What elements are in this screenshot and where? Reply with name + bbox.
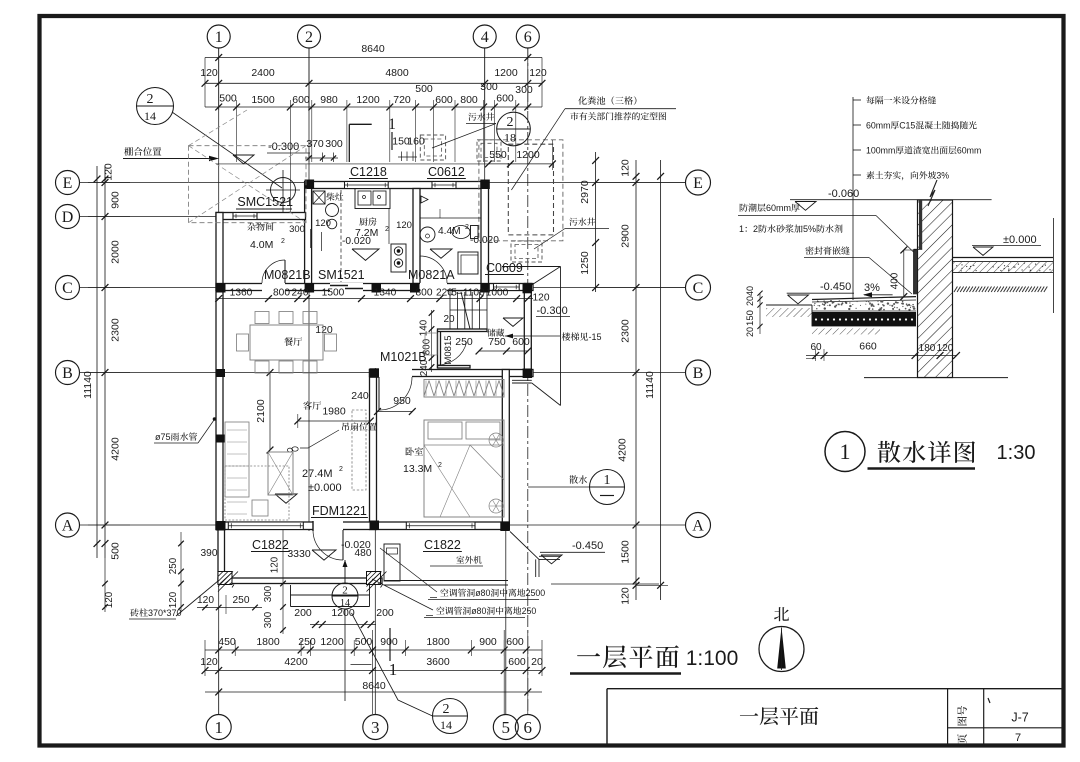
svg-text:900: 900: [479, 636, 497, 648]
detail: leader spine: [852, 97, 854, 300]
grid circles left: E D C B A: [56, 171, 80, 195]
svg-text:200: 200: [294, 607, 312, 619]
svg-text:C1822: C1822: [252, 538, 289, 552]
svg-text:1: 1: [739, 224, 744, 234]
svg-text:120: 120: [529, 67, 547, 79]
septic labels: [468, 113, 494, 121]
svg-text:1: 1: [840, 439, 851, 464]
detail note 2: [853, 124, 861, 126]
svg-text:-0.060: -0.060: [828, 188, 859, 200]
svg-text:C: C: [693, 280, 704, 297]
coffee table: [268, 452, 293, 495]
entry steps: [291, 594, 370, 596]
svg-text:-0.300: -0.300: [268, 141, 299, 153]
window C1822 right: [406, 522, 475, 530]
svg-text:20: 20: [745, 296, 755, 306]
svg-text:390: 390: [201, 548, 218, 559]
svg-text:1500: 1500: [620, 540, 632, 564]
svg-text:M1021B: M1021B: [380, 350, 427, 364]
svg-text:120: 120: [315, 218, 331, 229]
level line -0.060: [790, 199, 992, 201]
svg-text:450: 450: [218, 636, 236, 648]
svg-text:500: 500: [219, 93, 237, 105]
svg-text:400: 400: [890, 272, 901, 289]
svg-text:C1218: C1218: [350, 165, 387, 179]
svg-text:60mm: 60mm: [957, 146, 981, 156]
svg-text:3: 3: [371, 718, 380, 737]
floor slab right ±0.000: [953, 257, 1054, 259]
svg-text:720: 720: [393, 94, 411, 106]
svg-text:1: 1: [604, 473, 611, 488]
svg-text:660: 660: [859, 341, 877, 353]
svg-text:150: 150: [745, 310, 756, 326]
wall: row B (bedroom north): [370, 370, 534, 377]
svg-text:120: 120: [200, 656, 218, 668]
room 杂物间 4.0M2: [247, 222, 273, 230]
bottom chain 120/4200/3600/600/20: [205, 670, 542, 672]
svg-text:550: 550: [489, 149, 507, 161]
svg-text:2: 2: [281, 238, 285, 245]
svg-text:1200: 1200: [494, 67, 518, 79]
level -0.450 right: [572, 540, 603, 552]
svg-text:2: 2: [507, 115, 514, 130]
svg-text:2300: 2300: [620, 319, 632, 343]
left label 密封膏嵌缝: [805, 246, 849, 254]
svg-text:1980: 1980: [322, 406, 346, 418]
apron black base: [812, 312, 916, 326]
svg-text:14: 14: [340, 598, 350, 609]
TV cabinet: [352, 410, 366, 490]
storage room walls under stair: [438, 331, 441, 368]
damp proof band: [919, 200, 922, 249]
svg-text:14: 14: [440, 718, 452, 732]
svg-text:4200: 4200: [110, 437, 122, 461]
svg-text:300: 300: [263, 585, 274, 602]
svg-text:ø80: ø80: [471, 606, 486, 616]
detail title 散水详图 1:30: [825, 432, 865, 472]
散水 index circle right: [569, 475, 587, 483]
drawing title 一层平面 1:100: [577, 645, 679, 668]
svg-text:1000: 1000: [486, 288, 509, 299]
brick column label: [130, 608, 181, 618]
svg-text:E: E: [63, 175, 73, 192]
wall bottom ground line: [864, 377, 1008, 379]
wall top break: [928, 180, 937, 206]
svg-text:180: 180: [919, 343, 936, 354]
svg-text:SM1521: SM1521: [318, 268, 365, 282]
wall: grid5 vertical (bedroom east): [502, 370, 509, 530]
hatched brick columns 370x370: [218, 572, 238, 592]
top dim chain segments: [205, 106, 542, 108]
svg-text:2300: 2300: [110, 318, 122, 342]
svg-text:800: 800: [416, 288, 433, 299]
bedside fans: [489, 433, 503, 447]
top dim chain 2400/4800/1200: [205, 82, 542, 84]
svg-text:1500: 1500: [251, 94, 275, 106]
svg-text:800: 800: [460, 94, 478, 106]
stair break line: [461, 292, 470, 329]
svg-text:120: 120: [620, 159, 632, 177]
svg-text:M0821B: M0821B: [264, 268, 311, 282]
svg-text:1200: 1200: [356, 94, 380, 106]
svg-text:60: 60: [810, 342, 822, 353]
detail note 3: [853, 149, 861, 151]
svg-text:950: 950: [393, 395, 411, 407]
grid circles bottom: 1 3 5 6: [206, 715, 231, 740]
sewage well 1 dashed box: [420, 135, 445, 160]
svg-text:J-7: J-7: [1011, 711, 1028, 725]
svg-text:600: 600: [435, 94, 453, 106]
svg-text:8640: 8640: [362, 680, 386, 692]
svg-text:1250: 1250: [579, 251, 591, 275]
svg-text:13.3M: 13.3M: [403, 463, 432, 475]
bath shower head marker: [421, 196, 428, 203]
吊扇位置 ceiling fan: [342, 422, 376, 430]
bottom chain 450/1800/250/1200/500/900/1800/900/600: [205, 649, 542, 651]
washer: [458, 252, 478, 274]
svg-text:2: 2: [385, 226, 389, 233]
AC unit 室外机: [384, 544, 400, 581]
400 dim: [903, 250, 905, 297]
svg-text:C1822: C1822: [424, 538, 461, 552]
svg-text:-15: -15: [589, 332, 602, 342]
svg-text:800: 800: [273, 288, 290, 299]
hatch strip below apron: [812, 328, 880, 334]
stair arrow: [505, 335, 560, 337]
porch veranda edge east part: [384, 580, 508, 582]
north arrow: [774, 607, 789, 621]
bath divider line: [420, 217, 481, 219]
svg-text:600: 600: [496, 93, 514, 105]
small table storage room: [425, 333, 437, 355]
svg-text:1:30: 1:30: [997, 442, 1036, 464]
svg-text:250: 250: [455, 336, 473, 348]
porch walls SW: [218, 530, 225, 582]
svg-text:120: 120: [270, 556, 281, 573]
kitchen sink: [355, 189, 390, 209]
svg-text:1800: 1800: [426, 636, 450, 648]
svg-text:160: 160: [407, 136, 425, 148]
sewage well 2 dashed box: [477, 140, 501, 161]
svg-text:4.4M: 4.4M: [438, 226, 461, 237]
svg-text:ø75: ø75: [155, 432, 171, 442]
left label 1:2防水砂浆加5%防水剂: [739, 224, 843, 234]
bedroom dim 950 / 240: [378, 411, 413, 413]
AC hole labels: [440, 588, 545, 598]
index circle 2/18: [497, 112, 531, 146]
kitchen counter line: [388, 209, 390, 244]
svg-text:120: 120: [937, 343, 954, 354]
veranda south edge line: [551, 583, 659, 585]
columns: [305, 180, 315, 190]
svg-text:200: 200: [376, 607, 394, 619]
canopy labels NW: [124, 147, 161, 156]
septic tank dashed outline: [479, 140, 563, 241]
subsoil strip right: [954, 287, 1047, 293]
svg-text:27.4M: 27.4M: [302, 468, 333, 480]
svg-text:300: 300: [263, 611, 274, 628]
svg-text:40: 40: [745, 286, 755, 296]
svg-text:11140: 11140: [644, 371, 656, 399]
svg-text:600: 600: [508, 656, 526, 668]
svg-text:480: 480: [355, 548, 372, 559]
svg-text:3%: 3%: [864, 282, 880, 294]
detail bottom dims 60/660/180/120: [806, 355, 957, 357]
interior dim chain above row C: 1360/800/240/1500/1340/800/220*5=1100/1000: [216, 298, 533, 300]
svg-text:C0609: C0609: [486, 261, 523, 275]
svg-text:1200: 1200: [516, 149, 540, 161]
window C1218: [345, 182, 389, 189]
svg-text:2: 2: [305, 29, 313, 46]
svg-text:5: 5: [502, 718, 511, 737]
svg-text:B: B: [62, 365, 73, 382]
wardrobe hatch: [424, 380, 504, 398]
window C0612: [432, 182, 456, 189]
svg-text:500: 500: [110, 542, 122, 560]
svg-text:120: 120: [620, 587, 632, 605]
kitchen dashed partition: [340, 190, 342, 282]
right chain septic dims 2970/1250: [595, 152, 597, 292]
sofa L-shape: [225, 422, 249, 497]
svg-text:7: 7: [1015, 732, 1021, 744]
svg-text:120: 120: [104, 591, 115, 608]
title block: [607, 688, 1062, 690]
rain pipe label: [155, 432, 197, 442]
left overall 11140: [96, 166, 98, 558]
svg-text:M0815: M0815: [443, 335, 454, 364]
柴灶 stove: [326, 193, 343, 201]
svg-text:2400: 2400: [251, 67, 275, 79]
svg-text:1200: 1200: [320, 636, 344, 648]
detail target circle at SMC door: [271, 178, 296, 203]
bath 4.4M2: [438, 226, 461, 237]
svg-text:2000: 2000: [110, 240, 122, 264]
sewage well 3 dashed box (lower): [511, 241, 542, 262]
svg-text:±0.000: ±0.000: [1003, 234, 1037, 246]
stair treads: [449, 292, 451, 329]
svg-text:120: 120: [200, 67, 218, 79]
svg-text:18: 18: [504, 131, 516, 145]
svg-text:1: 1: [388, 116, 396, 133]
svg-text:20: 20: [443, 314, 455, 325]
svg-text:370: 370: [306, 138, 324, 150]
svg-text:B: B: [693, 365, 704, 382]
svg-text:2970: 2970: [579, 180, 591, 204]
svg-text:C15: C15: [899, 121, 915, 131]
canopy SE corner bedroom: [510, 532, 539, 560]
svg-text:2: 2: [147, 92, 154, 107]
detail note 4: [853, 174, 861, 176]
svg-text:120: 120: [103, 163, 115, 181]
svg-text:8640: 8640: [361, 43, 385, 55]
svg-text:300: 300: [289, 224, 305, 235]
svg-text:1: 1: [214, 718, 223, 737]
grid axis lines: [218, 48, 220, 714]
svg-text:4800: 4800: [385, 67, 409, 79]
right chain segments: [635, 160, 637, 600]
svg-text:2: 2: [753, 224, 758, 234]
wall: grid4 vertical: [481, 182, 489, 291]
left porch extra dims: [180, 532, 182, 612]
svg-text:60mm: 60mm: [866, 121, 890, 131]
svg-text:600: 600: [292, 94, 310, 106]
svg-text:2: 2: [339, 466, 343, 473]
svg-text:-0.020: -0.020: [470, 235, 499, 246]
svg-text:300: 300: [515, 84, 533, 96]
svg-text:1800: 1800: [256, 636, 280, 648]
svg-text:3600: 3600: [426, 656, 450, 668]
chimney outline: [349, 123, 371, 125]
left small dims: [759, 293, 761, 334]
septic dim 550/1200: [488, 163, 552, 165]
svg-text:1360: 1360: [230, 288, 253, 299]
svg-text:3%: 3%: [936, 171, 949, 181]
ground line left of apron: [766, 304, 812, 306]
svg-text:900: 900: [380, 636, 398, 648]
svg-text:ø80: ø80: [475, 588, 490, 598]
wall: row C: [216, 284, 533, 291]
svg-text:900: 900: [110, 191, 122, 209]
svg-text:4.0M: 4.0M: [250, 239, 273, 251]
room 厨房 7.2M2: [359, 217, 376, 225]
svg-text:2: 2: [443, 702, 450, 717]
svg-text:C0612: C0612: [428, 165, 465, 179]
svg-text:±0.000: ±0.000: [308, 482, 342, 494]
room 客厅 27.4M2 ±0.000: [303, 401, 321, 410]
svg-text:A: A: [692, 518, 704, 535]
bed: [424, 420, 504, 517]
svg-text:1: 1: [389, 660, 398, 679]
svg-text:750: 750: [488, 336, 506, 348]
svg-text:4200: 4200: [617, 438, 629, 462]
svg-text:100mm: 100mm: [866, 146, 895, 156]
svg-text:11140: 11140: [82, 371, 94, 399]
window C1822 left: [228, 522, 303, 530]
level -0.300 stair: [537, 305, 568, 317]
wall: west wall (grid1) D to A: [216, 213, 223, 530]
section circle 2/14 at entry: [332, 583, 358, 609]
svg-text:120: 120: [533, 293, 550, 304]
svg-text:240: 240: [351, 390, 369, 402]
svg-text:600: 600: [506, 636, 524, 648]
svg-text:FDM1221: FDM1221: [312, 504, 367, 518]
svg-text:1340: 1340: [374, 288, 397, 299]
svg-text:250: 250: [522, 606, 537, 616]
svg-text:250: 250: [298, 636, 316, 648]
level -0.450 detail: [820, 281, 851, 293]
svg-text:240: 240: [292, 288, 309, 299]
left label 防潮层60mm厚: [740, 203, 800, 213]
wall: grid6 vertical (stair bay east): [524, 284, 531, 378]
room 卧室 13.3M2: [405, 447, 423, 456]
detail note 1: [853, 99, 861, 101]
grid circles top: 1 2 4 6: [207, 25, 230, 48]
svg-text:370*370: 370*370: [148, 608, 182, 618]
kitchen level -0.020: [342, 236, 371, 247]
svg-text:1500: 1500: [322, 288, 345, 299]
svg-text:980: 980: [320, 94, 338, 106]
svg-text:300: 300: [480, 81, 498, 93]
right overall 11140: [660, 160, 662, 600]
kitchen water meter box: [313, 191, 325, 204]
bottom overall 8640: [205, 691, 542, 693]
svg-text:*5=1100: *5=1100: [447, 288, 485, 299]
section index circle 2/14 top left: [137, 88, 174, 125]
svg-text:-0.450: -0.450: [820, 281, 851, 293]
wall: grid2 vertical (kitchen west): [305, 182, 312, 291]
svg-text:3330: 3330: [287, 548, 311, 560]
living room dims 2100 / 1980: [269, 373, 271, 451]
doors (arcs): [262, 260, 285, 283]
storage label 储藏: [487, 329, 504, 337]
grid circles right: E C B A: [686, 170, 711, 195]
door FDM1221 opening: [313, 521, 343, 531]
svg-text:250: 250: [233, 595, 250, 606]
svg-text:20: 20: [745, 327, 755, 337]
svg-text:4: 4: [481, 29, 489, 46]
svg-text:60mm: 60mm: [766, 203, 791, 213]
kitchen stove 2 burners: [391, 244, 406, 272]
楼梯见-15: [562, 332, 602, 342]
room 餐厅: [284, 337, 302, 346]
svg-text:120: 120: [168, 591, 179, 608]
svg-text:300: 300: [325, 138, 343, 150]
svg-text:A: A: [62, 518, 74, 535]
svg-text:D: D: [62, 209, 74, 226]
svg-text:500: 500: [415, 83, 433, 95]
svg-text:-0.450: -0.450: [572, 540, 603, 552]
svg-text:4200: 4200: [284, 656, 308, 668]
wall: row D (storage north) with SMC1521 band: [216, 213, 306, 220]
svg-text:6: 6: [524, 29, 532, 46]
svg-text:2500: 2500: [526, 588, 546, 598]
wall: kitchen/bath divider: [413, 189, 420, 284]
svg-text:2: 2: [342, 585, 348, 597]
svg-text:20: 20: [531, 656, 543, 668]
armchairs lower: [252, 500, 268, 516]
canopy NE (over side door): [560, 267, 562, 406]
svg-text:2100: 2100: [255, 399, 267, 423]
dining table & chairs: [250, 325, 323, 360]
svg-text:M0821A: M0821A: [408, 268, 455, 282]
svg-text:120: 120: [396, 220, 412, 231]
row C openings: M0821B, SM1521, M0821A, C0609: [262, 283, 285, 292]
svg-text:-0.300: -0.300: [537, 305, 568, 317]
svg-text:140: 140: [419, 319, 430, 336]
bath washbasin: [420, 227, 435, 242]
svg-text:5%: 5%: [803, 224, 816, 234]
wall: north wall kitchen/bath (row E): [306, 182, 489, 189]
svg-text:-0.020: -0.020: [342, 236, 371, 247]
svg-text:E: E: [693, 175, 703, 192]
svg-text:C: C: [62, 280, 73, 297]
svg-text:6: 6: [524, 718, 533, 737]
canopy dashed rect NW with X diagonals: [189, 146, 307, 223]
left dim chain: [104, 166, 106, 558]
svg-text:1:100: 1:100: [686, 647, 739, 670]
svg-text:250: 250: [168, 557, 179, 574]
svg-text:600: 600: [512, 336, 530, 348]
top dim chain 8640: [205, 57, 542, 59]
wall: grid3 vertical (living/bedroom divider): [370, 370, 377, 530]
wall: row A (south): [216, 522, 509, 530]
apron slab: [812, 297, 916, 300]
svg-text:500: 500: [355, 636, 373, 648]
section index circle 2/14 bottom: [433, 699, 468, 734]
svg-text:14: 14: [144, 109, 156, 123]
svg-text:2900: 2900: [620, 224, 632, 248]
bottom steps dims 200/1200/200: [310, 624, 376, 626]
